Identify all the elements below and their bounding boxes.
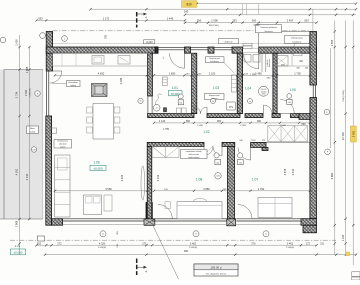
- wardrobe bottom-left: [55, 155, 71, 217]
- exterior wall: top pier 3: [232, 47, 243, 53]
- svg-text:2 300: 2 300: [254, 24, 261, 27]
- svg-text:LM: LM: [216, 176, 219, 178]
- svg-text:2 100: 2 100: [209, 71, 216, 75]
- top-right bump-out outline: [259, 32, 310, 48]
- wall stub between 1.05 and closets: [299, 114, 310, 120]
- sideboard 1.06: [104, 195, 112, 211]
- sliding door leaf ellipse: [141, 166, 145, 200]
- top dim line 3: [185, 14, 356, 16]
- exterior wall: left wall lower: [46, 116, 52, 225]
- svg-text:1.07: 1.07: [252, 178, 259, 182]
- hall tag circle LM: [215, 173, 221, 179]
- entrance threshold lines: [243, 47, 259, 49]
- cased opening below W1: [147, 96, 149, 114]
- interior wall W6 (1.08/1.07): [228, 146, 235, 218]
- area summary box: [194, 264, 238, 276]
- svg-text:3 425: 3 425: [120, 174, 124, 181]
- svg-text:Gabrielova: Gabrielova: [268, 59, 271, 67]
- svg-text:2200: 2200: [262, 93, 266, 95]
- svg-text:WC: WC: [299, 61, 303, 63]
- interior wall W2 (1.01/1.03): [192, 53, 197, 113]
- bottom tag circle 2: [193, 231, 199, 237]
- kitchen sink: [92, 56, 104, 65]
- corridor top wall seg D: [272, 114, 280, 118]
- svg-text:3 461: 3 461: [287, 242, 294, 245]
- right dim line short: [330, 48, 332, 148]
- corridor bottom wall seg A: [147, 142, 204, 146]
- electrical cabinet label box: [67, 81, 81, 87]
- svg-text:4 320: 4 320: [99, 242, 106, 245]
- svg-text:553: 553: [38, 16, 43, 20]
- svg-text:2 009: 2 009: [250, 140, 256, 142]
- svg-text:Zadverie: Zadverie: [224, 41, 233, 44]
- wc cistern boxes: [294, 53, 302, 55]
- interior wall W1 (living/1.01) upper: [148, 53, 153, 96]
- svg-text:2 028: 2 028: [197, 125, 203, 127]
- section mark top: [136, 12, 138, 28]
- svg-text:2 560(3t): 2 560(3t): [98, 246, 106, 249]
- svg-text:nezobrazene schody,: nezobrazene schody,: [186, 150, 202, 153]
- svg-text:m: m: [195, 234, 197, 236]
- top dim line 5 left: [37, 19, 186, 21]
- facade note box: [256, 25, 282, 33]
- door tag circle 04 room 1.05: [287, 94, 292, 99]
- door tag circle 1t: [153, 105, 160, 112]
- interior wall W3 (1.03/1.04): [237, 53, 242, 113]
- svg-text:553: 553: [37, 242, 42, 245]
- room 1.06 dim line: [55, 190, 147, 192]
- kitchen dim line: [55, 74, 147, 76]
- exterior wall: top wall east segment: [259, 47, 317, 53]
- exterior wall: top-left corner pier: [46, 32, 52, 72]
- svg-text:2 200 (3t): 2 200 (3t): [29, 88, 32, 97]
- window: top wall window 3: [214, 47, 232, 49]
- svg-text:1.05: 1.05: [289, 88, 295, 92]
- door arc 1.08 bottom window: [158, 205, 172, 219]
- svg-text:272: 272: [57, 242, 62, 245]
- svg-text:1 755: 1 755: [163, 128, 170, 131]
- door 1.05 arc: [280, 100, 294, 114]
- svg-text:3 481: 3 481: [190, 242, 197, 245]
- svg-text:1 446: 1 446: [167, 16, 174, 20]
- svg-text:atika dole: atika dole: [59, 143, 67, 146]
- svg-text:m: m: [102, 234, 104, 236]
- door tag box 04 room 1.07: [238, 159, 244, 164]
- exterior wall: top wall west segment: [46, 47, 158, 53]
- small dark box 1.01: [163, 108, 166, 112]
- svg-text:240: 240: [184, 9, 189, 13]
- terrace door arc from left wall: [50, 71, 62, 83]
- svg-text:183.06 d: 183.06 d: [211, 265, 222, 269]
- stair note box: [181, 150, 208, 159]
- exterior wall: top pier 2: [208, 47, 214, 53]
- legend box bottom-left: [38, 236, 45, 241]
- wardrobe X row 1.08: [152, 146, 179, 157]
- door tag circle 1.08: [214, 153, 219, 158]
- tag circle F right: [325, 149, 331, 155]
- svg-text:3 734: 3 734: [15, 91, 19, 98]
- svg-text:390: 390: [197, 19, 202, 23]
- svg-text:dotka na jode: dotka na jode: [189, 153, 199, 156]
- door tag circle corridor right: [248, 99, 253, 104]
- svg-text:LM: LM: [32, 149, 35, 151]
- entrance door arc into vestibule: [243, 53, 259, 68]
- svg-text:1 480: 1 480: [255, 71, 262, 75]
- overall width tag yellow: [182, 1, 197, 8]
- left dim line 2: [28, 47, 30, 219]
- terrace window door arc 1.01: [170, 53, 185, 68]
- exterior wall: left window: [46, 71, 48, 116]
- kitchen island hatched: [92, 84, 108, 97]
- window: bottom window middle: [152, 218, 227, 220]
- svg-text:1.06: 1.06: [93, 160, 99, 164]
- vestibule stacked boxes: [243, 43, 252, 46]
- bed room 1.06: [84, 195, 102, 215]
- interior wall W5 (1.08 west): [147, 146, 152, 218]
- left dim line 1: [19, 35, 21, 255]
- drainage leader line: [291, 43, 295, 53]
- svg-text:275: 275: [251, 242, 256, 245]
- terrace door arc bottom 1.07: [238, 205, 252, 219]
- bottom window outer sill line: [63, 224, 301, 226]
- column footing pier 2: [227, 219, 236, 226]
- window: top wall window 2: [191, 47, 209, 49]
- svg-text:830: 830: [186, 3, 192, 7]
- svg-text:1 120: 1 120: [159, 119, 166, 123]
- dining chairs: [87, 107, 93, 113]
- wardrobe X row 1.07: [268, 126, 308, 142]
- fixtures top 1.04: [244, 55, 251, 63]
- svg-text:760(1 900): 760(1 900): [208, 25, 218, 27]
- exterior wall: bottom-right corner step: [303, 225, 317, 233]
- svg-text:293: 293: [232, 19, 237, 23]
- exterior wall: bottom-right corner: [301, 219, 317, 226]
- shower square 1.05: [275, 56, 288, 66]
- corridor top wall seg E: [291, 114, 300, 118]
- door 1.07 arc: [238, 147, 251, 160]
- exterior wall: bottom-left stub: [52, 219, 63, 226]
- window: bottom window east: [236, 218, 301, 220]
- svg-text:±0,000: ±0,000: [93, 167, 102, 171]
- closet top line room 1.07: [266, 141, 310, 143]
- svg-text:TVx+1P: TVx+1P: [260, 89, 267, 91]
- svg-text:3 510: 3 510: [291, 168, 295, 175]
- door 1.04 arc: [264, 105, 273, 114]
- stamp circle TV 1.04: [259, 86, 269, 96]
- tag circle top-left b: [62, 36, 68, 42]
- nightstand left 1.08: [165, 202, 171, 209]
- room 1.06 level box: [90, 165, 106, 170]
- svg-text:Merici: Merici: [30, 127, 36, 130]
- door tag circle 1.07: [238, 153, 243, 158]
- roof / atika dash-dot outline: [53, 30, 311, 32]
- exterior wall: top pier 1: [185, 47, 191, 53]
- svg-text:1.03: 1.03: [213, 86, 219, 90]
- svg-text:1.01: 1.01: [172, 86, 178, 90]
- svg-text:280: 280: [184, 250, 189, 253]
- kitchen hob: [118, 56, 130, 65]
- dining table: [93, 104, 114, 140]
- bottom dash-dot line: [10, 239, 336, 241]
- svg-text:Tvarovana palubovka: Tvarovana palubovka: [260, 27, 277, 29]
- appliance stack 1.01: [163, 77, 168, 86]
- svg-text:2 497: 2 497: [287, 19, 294, 23]
- svg-text:3 186: 3 186: [119, 77, 123, 84]
- svg-text:311: 311: [320, 242, 325, 245]
- corridor top wall seg A: [148, 114, 194, 118]
- svg-text:Stupacie pole: Stupacie pole: [209, 94, 220, 97]
- riser note box kanalizacie: [206, 57, 225, 63]
- door tag circle corridor left: [211, 99, 216, 104]
- svg-text:3 313: 3 313: [156, 174, 160, 181]
- svg-text:1 790: 1 790: [258, 187, 265, 191]
- terrace right edge: [42, 70, 44, 220]
- corridor bottom wall corner piece: [251, 142, 266, 147]
- door tag box 04 room 1.08: [215, 159, 221, 164]
- kitchen counter outline: [53, 53, 150, 66]
- svg-text:1 868: 1 868: [25, 66, 29, 73]
- tag circle mid living: [138, 98, 143, 103]
- interior wall W4 (1.04/1.05): [273, 53, 277, 113]
- room 1.01 level box: [169, 91, 183, 96]
- svg-text:4 281: 4 281: [15, 168, 19, 175]
- svg-text:800: 800: [186, 120, 191, 123]
- door 1.08 double arc left: [204, 146, 213, 155]
- corridor dim line: [154, 122, 310, 124]
- top dim line 1: [197, 3, 356, 5]
- svg-text:2 560(3t): 2 560(3t): [189, 246, 197, 249]
- svg-text:-0,020: -0,020: [146, 41, 153, 44]
- window: bottom window west: [63, 218, 147, 220]
- corner piece jog: [262, 147, 268, 150]
- svg-text:1 272: 1 272: [103, 16, 110, 20]
- svg-text:1 655: 1 655: [330, 39, 334, 46]
- svg-text:2 029: 2 029: [240, 125, 246, 127]
- ps shaft box: [227, 102, 235, 110]
- exterior wall: right wall lower: [310, 98, 317, 219]
- svg-text:4 550: 4 550: [105, 187, 112, 191]
- svg-text:900: 900: [252, 19, 257, 23]
- vestibule label box: [219, 39, 239, 44]
- top dim line 4: [185, 22, 317, 24]
- svg-text:8 485: 8 485: [353, 130, 356, 137]
- right dim line 2: [345, 20, 347, 255]
- svg-text:komen: komen: [60, 146, 65, 148]
- riser note box vetranie: [205, 94, 225, 100]
- svg-text:Nezobrazena: Nezobrazena: [57, 141, 68, 143]
- yellow dot right: [346, 252, 350, 256]
- door 1.08 double arc right: [213, 146, 222, 155]
- svg-text:4 650: 4 650: [98, 71, 105, 75]
- svg-text:Stupacie potr.: Stupacie potr.: [209, 57, 220, 60]
- upper rooms dim line: [154, 74, 310, 76]
- column footing pier 1: [144, 219, 155, 226]
- bottom tag circle 3: [263, 231, 269, 237]
- svg-text:900: 900: [257, 120, 262, 123]
- svg-text:1 868: 1 868: [15, 220, 19, 227]
- fixture column 1.03: [232, 75, 237, 92]
- tag circle top-left a: [40, 33, 46, 39]
- corridor top wall seg C: [245, 114, 263, 118]
- terrace slab (exterior paved area): [0, 70, 43, 220]
- svg-text:Odkvapovy pas: Odkvapovy pas: [291, 38, 303, 40]
- svg-text:700 (1 500): 700 (1 500): [343, 90, 345, 101]
- svg-text:kanalizacie: kanalizacie: [293, 41, 302, 43]
- svg-text:1.08: 1.08: [196, 178, 203, 182]
- svg-text:1.04: 1.04: [245, 86, 251, 90]
- svg-text:2 560(3t): 2 560(3t): [286, 246, 294, 249]
- svg-text:Vm. obytneho miesta: Vm. obytneho miesta: [206, 273, 227, 276]
- svg-text:1.02: 1.02: [203, 130, 209, 134]
- meter note box on terrace: [27, 126, 39, 134]
- entrance dim drop lines: [242, 4, 244, 15]
- facade line above top wall: [46, 43, 316, 45]
- section mark bottom: [136, 259, 138, 276]
- wc divider line: [291, 53, 293, 66]
- svg-text:905: 905: [217, 120, 222, 123]
- right dim line 1: [334, 20, 336, 255]
- bed 1.08: [177, 202, 222, 219]
- svg-text:4 878: 4 878: [283, 168, 287, 175]
- bottom tag circle 1: [100, 231, 106, 237]
- wall cap at kitchen window: [155, 47, 158, 53]
- bottom dim line 1: [37, 244, 317, 246]
- svg-text:271: 271: [142, 242, 147, 245]
- squiggle leader at opening: [156, 94, 162, 105]
- svg-text:4 010: 4 010: [25, 173, 29, 180]
- door 1.03 arc: [201, 107, 208, 114]
- tag circle left edge: [0, 37, 6, 43]
- svg-text:2 330: 2 330: [25, 89, 28, 96]
- svg-text:503: 503: [304, 19, 309, 23]
- door 1.01 arc: [194, 107, 201, 114]
- svg-text:10 145: 10 145: [342, 132, 345, 140]
- wardrobe note box: [54, 140, 72, 149]
- svg-text:kanalizacie: kanalizacie: [210, 61, 219, 63]
- tag circle LM left: [31, 147, 36, 152]
- legend boxes bottom-right: [352, 272, 360, 277]
- leader line to note: [153, 225, 179, 280]
- svg-text:Rozvadzac: Rozvadzac: [69, 82, 78, 84]
- svg-text:2 009: 2 009: [280, 125, 286, 127]
- svg-text:1 145: 1 145: [342, 234, 345, 241]
- svg-text:3 880: 3 880: [203, 187, 210, 191]
- right dim line 3: [352, 20, 354, 265]
- exterior wall: bottom pier 1: [146, 203, 152, 219]
- door tag circle 04 room 1.01: [178, 94, 183, 99]
- corridor top wall seg B: [207, 114, 240, 118]
- vestibule door frame: [261, 53, 263, 72]
- exterior wall: right wall upper pier: [310, 32, 317, 86]
- svg-text:Sunded: Sunded: [261, 91, 267, 93]
- svg-text:m: m: [265, 234, 267, 236]
- fixture boxes 1.01: [177, 108, 182, 115]
- lower rooms dim line: [154, 190, 310, 192]
- svg-text:1 650: 1 650: [169, 71, 176, 75]
- svg-text:272: 272: [306, 242, 311, 245]
- svg-text:2 008: 2 008: [211, 19, 218, 23]
- level tag -0,020: [144, 40, 155, 44]
- corridor bottom wall seg B: [222, 142, 235, 146]
- right dim yellow tag: [350, 126, 356, 142]
- window: top wall terrace window: [158, 47, 185, 49]
- svg-text:6 880: 6 880: [330, 172, 334, 179]
- svg-text:bodnik: bodnik: [30, 132, 36, 134]
- svg-text:1 050: 1 050: [15, 39, 19, 46]
- svg-text:medzi vyskami: medzi vyskami: [188, 157, 200, 159]
- svg-text:±0,000: ±0,000: [14, 251, 23, 255]
- tag circle terrace: [35, 91, 40, 96]
- svg-text:700: 700: [105, 34, 108, 39]
- bump-out top leader line: [312, 9, 314, 31]
- top dim line 2: [91, 8, 357, 10]
- svg-text:bytovy: bytovy: [71, 84, 77, 87]
- svg-text:830: 830: [302, 123, 307, 126]
- svg-text:2.01: 2.01: [15, 244, 21, 248]
- tag circle right mid: [324, 109, 330, 115]
- svg-text:Gauferova: Gauferova: [264, 31, 272, 33]
- window: right wall window: [312, 85, 314, 98]
- svg-text:1 700: 1 700: [294, 71, 301, 75]
- bottom dim line 2: [45, 254, 356, 256]
- drainage note box: [285, 36, 310, 44]
- svg-text:P/S: P/S: [229, 106, 233, 109]
- sofa 1.07: [258, 198, 292, 218]
